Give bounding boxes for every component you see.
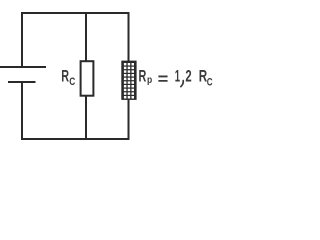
svg-text:R: R bbox=[61, 68, 69, 86]
svg-text:R: R bbox=[139, 68, 147, 86]
svg-text:2: 2 bbox=[185, 68, 191, 86]
svg-text:=: = bbox=[158, 71, 169, 89]
svg-text:p: p bbox=[147, 74, 152, 86]
svg-text:1: 1 bbox=[175, 68, 180, 86]
svg-text:C: C bbox=[69, 76, 75, 88]
svg-text:C: C bbox=[207, 76, 213, 88]
